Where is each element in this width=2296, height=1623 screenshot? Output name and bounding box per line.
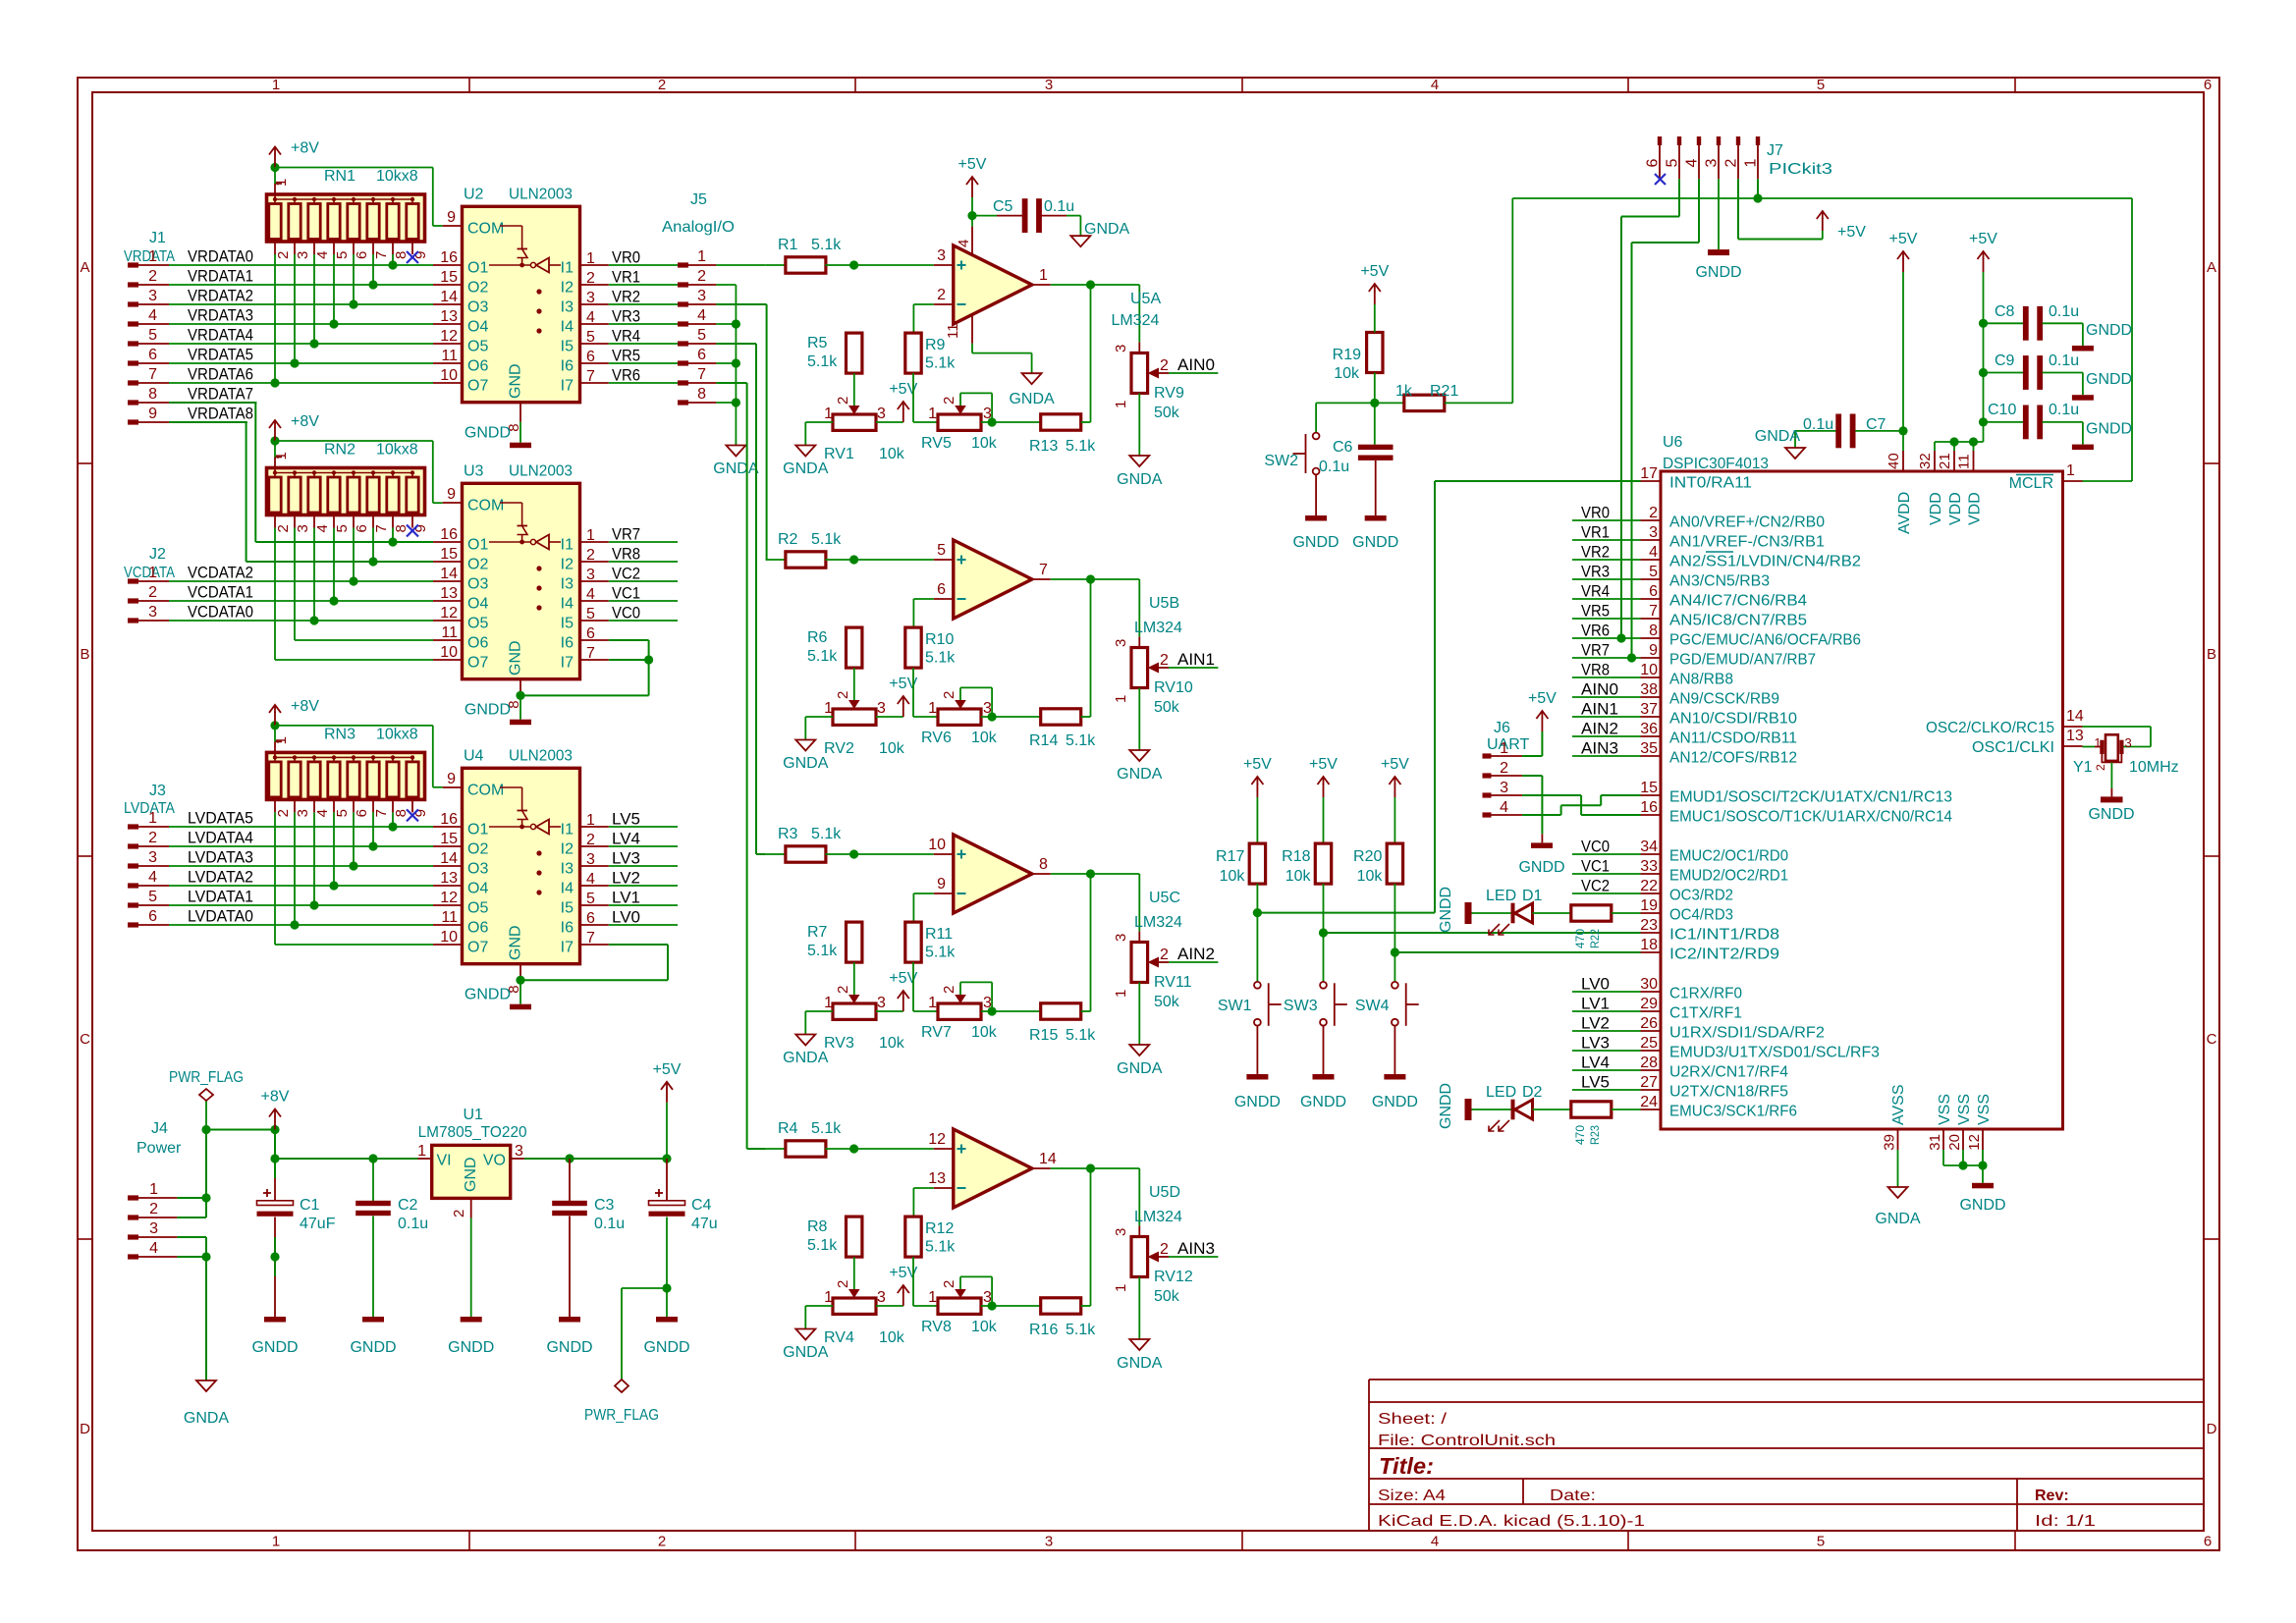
svg-text:1: 1	[148, 810, 157, 827]
svg-text:50k: 50k	[1154, 405, 1180, 421]
svg-text:VR5: VR5	[1581, 602, 1610, 621]
svg-text:2: 2	[697, 268, 706, 285]
svg-text:VRDATA3: VRDATA3	[188, 306, 253, 325]
svg-text:GNDD: GNDD	[1438, 887, 1454, 933]
svg-text:GNDA: GNDA	[1875, 1211, 1921, 1227]
svg-text:Id: 1/1: Id: 1/1	[2035, 1513, 2096, 1530]
svg-text:I5: I5	[561, 616, 574, 632]
svg-text:1: 1	[586, 812, 595, 829]
svg-text:1: 1	[2094, 735, 2101, 750]
svg-text:28: 28	[1640, 1055, 1658, 1071]
svg-text:AIN3: AIN3	[1581, 739, 1618, 758]
svg-text:2: 2	[149, 1201, 158, 1217]
svg-text:C1RX/RF0: C1RX/RF0	[1669, 986, 1742, 1002]
svg-text:12: 12	[928, 1131, 946, 1148]
svg-text:3: 3	[1113, 639, 1129, 647]
svg-text:35: 35	[1640, 740, 1658, 757]
svg-text:10: 10	[440, 644, 458, 661]
svg-text:EMUC1/SOSCO/T1CK/U1ARX/CN0/RC1: EMUC1/SOSCO/T1CK/U1ARX/CN0/RC14	[1669, 809, 1952, 826]
svg-text:1: 1	[149, 1181, 158, 1198]
svg-text:0.1u: 0.1u	[1319, 459, 1349, 475]
svg-text:3: 3	[1500, 780, 1508, 796]
svg-text:C9: C9	[1995, 352, 2015, 369]
svg-text:LV5: LV5	[1581, 1073, 1610, 1092]
svg-text:3: 3	[586, 851, 595, 868]
svg-text:I7: I7	[561, 940, 574, 956]
svg-text:5.1k: 5.1k	[811, 1120, 842, 1137]
svg-text:R9: R9	[925, 337, 946, 353]
svg-text:R1: R1	[778, 237, 798, 253]
svg-text:1: 1	[824, 406, 833, 422]
svg-text:14: 14	[440, 289, 458, 305]
svg-text:GNDA: GNDA	[1117, 1060, 1163, 1077]
svg-text:5: 5	[148, 889, 157, 905]
svg-text:10k: 10k	[1357, 868, 1384, 885]
svg-text:EMUD2/OC2/RD1: EMUD2/OC2/RD1	[1669, 868, 1788, 885]
svg-text:3: 3	[983, 406, 992, 422]
svg-text:7: 7	[373, 524, 390, 532]
svg-text:11: 11	[441, 348, 458, 364]
svg-text:IC1/INT1/RD8: IC1/INT1/RD8	[1669, 927, 1779, 944]
svg-text:38: 38	[1640, 681, 1658, 698]
svg-text:GNDA: GNDA	[783, 755, 829, 772]
svg-text:8: 8	[1649, 622, 1658, 639]
svg-text:GNDA: GNDA	[1755, 428, 1801, 445]
svg-text:3: 3	[295, 809, 311, 817]
svg-text:10k: 10k	[1334, 365, 1360, 382]
svg-text:5: 5	[334, 251, 351, 259]
svg-text:O1: O1	[467, 537, 488, 554]
svg-text:AVSS: AVSS	[1890, 1085, 1907, 1126]
svg-text:3: 3	[697, 288, 706, 304]
svg-text:R14: R14	[1029, 732, 1058, 749]
svg-text:3: 3	[295, 251, 311, 259]
svg-text:1: 1	[272, 77, 280, 93]
svg-text:O5: O5	[467, 616, 488, 632]
svg-text:AN5/IC8/CN7/RB5: AN5/IC8/CN7/RB5	[1669, 613, 1807, 629]
svg-text:U5C: U5C	[1149, 890, 1180, 906]
svg-text:10MHz: 10MHz	[2129, 759, 2179, 776]
svg-text:1: 1	[928, 995, 937, 1011]
svg-text:U3: U3	[464, 462, 484, 479]
svg-text:VR6: VR6	[612, 366, 640, 385]
svg-text:1: 1	[1113, 401, 1129, 408]
svg-text:5.1k: 5.1k	[807, 353, 838, 370]
svg-text:18: 18	[1640, 937, 1658, 953]
svg-text:I3: I3	[561, 861, 574, 878]
svg-text:C3: C3	[594, 1197, 615, 1214]
svg-text:5.1k: 5.1k	[1066, 438, 1096, 455]
svg-text:VCDATA2: VCDATA2	[188, 564, 253, 582]
svg-text:I4: I4	[561, 881, 574, 897]
svg-text:31: 31	[1927, 1134, 1943, 1151]
svg-text:1: 1	[417, 1143, 426, 1160]
svg-text:I5: I5	[561, 339, 574, 355]
svg-text:13: 13	[2066, 728, 2084, 744]
svg-text:4: 4	[1500, 799, 1508, 816]
svg-text:2: 2	[1160, 1241, 1169, 1258]
svg-text:Date:: Date:	[1550, 1488, 1596, 1504]
svg-text:VRDATA2: VRDATA2	[188, 287, 253, 305]
svg-text:15: 15	[440, 831, 458, 847]
svg-text:I3: I3	[561, 299, 574, 316]
svg-text:2: 2	[941, 691, 957, 699]
svg-text:GNDA: GNDA	[1117, 471, 1163, 488]
svg-text:GNDD: GNDD	[2086, 322, 2132, 339]
svg-text:AnalogI/O: AnalogI/O	[662, 219, 735, 236]
svg-text:0.1u: 0.1u	[2049, 402, 2079, 418]
svg-text:VC1: VC1	[612, 584, 640, 603]
svg-text:RV10: RV10	[1154, 679, 1193, 696]
svg-text:LVDATA5: LVDATA5	[188, 809, 253, 828]
svg-text:GNDA: GNDA	[1117, 766, 1163, 783]
svg-text:50k: 50k	[1154, 1288, 1180, 1305]
svg-text:C1TX/RF1: C1TX/RF1	[1669, 1005, 1742, 1022]
svg-text:O2: O2	[467, 557, 488, 573]
svg-text:O1: O1	[467, 260, 488, 277]
svg-text:VR8: VR8	[612, 545, 640, 564]
svg-text:VRDATA4: VRDATA4	[188, 326, 253, 345]
svg-text:C1: C1	[300, 1197, 320, 1214]
svg-text:I7: I7	[561, 378, 574, 395]
svg-text:O5: O5	[467, 339, 488, 355]
svg-text:9: 9	[447, 209, 456, 226]
svg-text:15: 15	[1640, 780, 1658, 796]
svg-text:C2: C2	[398, 1197, 418, 1214]
svg-text:2: 2	[586, 547, 595, 564]
svg-text:LM324: LM324	[1134, 620, 1182, 636]
svg-text:PWR_FLAG: PWR_FLAG	[584, 1407, 659, 1424]
svg-text:C10: C10	[1988, 402, 2016, 418]
svg-text:LV3: LV3	[612, 849, 640, 868]
svg-text:COM: COM	[467, 221, 504, 238]
svg-text:RV2: RV2	[824, 740, 854, 757]
svg-text:10k: 10k	[971, 1024, 998, 1041]
svg-text:AN1/VREF-/CN3/RB1: AN1/VREF-/CN3/RB1	[1669, 534, 1825, 551]
svg-text:+8V: +8V	[261, 1089, 290, 1106]
svg-text:5: 5	[1817, 77, 1825, 93]
svg-text:3: 3	[983, 1289, 992, 1306]
svg-text:O6: O6	[467, 635, 488, 652]
svg-text:J7: J7	[1767, 142, 1783, 159]
svg-text:O7: O7	[467, 378, 488, 395]
svg-text:GNDA: GNDA	[783, 460, 829, 477]
svg-text:AIN3: AIN3	[1177, 1239, 1215, 1258]
svg-text:5: 5	[334, 524, 351, 532]
svg-text:3: 3	[148, 288, 157, 304]
svg-text:O7: O7	[467, 940, 488, 956]
svg-text:R6: R6	[807, 629, 828, 646]
svg-text:5.1k: 5.1k	[807, 943, 838, 959]
svg-text:LV2: LV2	[1581, 1014, 1610, 1033]
svg-text:2: 2	[586, 832, 595, 848]
svg-text:I1: I1	[561, 260, 574, 277]
svg-text:5.1k: 5.1k	[811, 826, 842, 842]
svg-text:R19: R19	[1333, 347, 1361, 363]
svg-text:J4: J4	[151, 1120, 168, 1137]
svg-text:2: 2	[1723, 159, 1740, 168]
svg-text:Y1: Y1	[2073, 759, 2093, 776]
svg-text:VDD: VDD	[1967, 492, 1984, 525]
svg-text:10k: 10k	[971, 435, 998, 452]
svg-text:6: 6	[1645, 159, 1662, 168]
svg-text:3: 3	[983, 700, 992, 717]
svg-text:+5V: +5V	[1837, 224, 1866, 241]
svg-text:J5: J5	[690, 191, 707, 208]
svg-text:3: 3	[2125, 735, 2132, 750]
svg-text:4: 4	[586, 586, 595, 603]
svg-text:GNDD: GNDD	[1234, 1094, 1281, 1110]
svg-text:5.1k: 5.1k	[1066, 1027, 1096, 1044]
svg-text:6: 6	[2204, 77, 2212, 93]
svg-text:VI: VI	[437, 1153, 452, 1169]
svg-text:16: 16	[440, 811, 458, 828]
svg-text:1: 1	[928, 406, 937, 422]
svg-text:VR7: VR7	[1581, 641, 1610, 660]
svg-text:8: 8	[697, 386, 706, 403]
svg-text:RV9: RV9	[1154, 385, 1184, 402]
svg-text:16: 16	[1640, 799, 1658, 816]
svg-text:VO: VO	[483, 1153, 506, 1169]
svg-text:C5: C5	[993, 198, 1013, 215]
svg-text:1k: 1k	[1395, 383, 1413, 400]
svg-text:O6: O6	[467, 920, 488, 937]
svg-text:O1: O1	[467, 822, 488, 839]
svg-text:10k: 10k	[879, 740, 905, 757]
svg-text:0.1u: 0.1u	[398, 1216, 428, 1232]
svg-text:VC0: VC0	[612, 604, 640, 622]
svg-text:MCLR: MCLR	[2009, 475, 2053, 492]
svg-text:7: 7	[373, 251, 390, 259]
svg-text:AIN1: AIN1	[1177, 650, 1215, 669]
svg-text:LV0: LV0	[1581, 975, 1610, 994]
svg-text:I1: I1	[561, 822, 574, 839]
svg-text:ULN2003: ULN2003	[509, 462, 573, 479]
svg-text:1: 1	[928, 1289, 937, 1306]
svg-text:R8: R8	[807, 1218, 828, 1235]
svg-text:12: 12	[440, 890, 458, 906]
svg-text:A: A	[2207, 259, 2216, 276]
svg-text:2: 2	[835, 1280, 851, 1288]
svg-text:6: 6	[937, 581, 946, 598]
svg-text:10: 10	[440, 367, 458, 384]
svg-text:32: 32	[1917, 453, 1934, 469]
svg-text:LVDATA4: LVDATA4	[188, 829, 253, 847]
svg-text:9: 9	[447, 486, 456, 503]
svg-text:30: 30	[1640, 976, 1658, 993]
svg-text:12: 12	[1966, 1134, 1983, 1151]
svg-text:LM324: LM324	[1112, 312, 1160, 329]
svg-text:5: 5	[1665, 159, 1681, 168]
svg-text:VRDATA5: VRDATA5	[188, 346, 253, 364]
svg-text:GNDA: GNDA	[1009, 391, 1055, 407]
svg-text:2: 2	[586, 270, 595, 287]
svg-text:OSC2/CLKO/RC15: OSC2/CLKO/RC15	[1926, 720, 2054, 736]
svg-text:LV1: LV1	[1581, 995, 1610, 1013]
svg-text:AVDD: AVDD	[1896, 492, 1913, 534]
svg-text:3: 3	[1045, 1534, 1053, 1550]
svg-text:10k: 10k	[1220, 868, 1246, 885]
svg-text:+5V: +5V	[958, 156, 987, 173]
svg-text:4: 4	[586, 871, 595, 888]
svg-text:VR5: VR5	[612, 347, 640, 365]
svg-text:File: ControlUnit.sch: File: ControlUnit.sch	[1378, 1433, 1556, 1449]
svg-text:3: 3	[149, 1220, 158, 1237]
svg-text:AN2/SS1/LVDIN/CN4/RB2: AN2/SS1/LVDIN/CN4/RB2	[1669, 554, 1861, 570]
svg-text:U2: U2	[464, 186, 484, 202]
svg-text:O4: O4	[467, 319, 488, 336]
svg-text:GNDD: GNDD	[448, 1339, 494, 1356]
svg-text:2: 2	[148, 584, 157, 601]
svg-text:5: 5	[937, 542, 946, 559]
svg-text:LED: LED	[1486, 1084, 1516, 1101]
svg-text:U5B: U5B	[1149, 595, 1179, 612]
svg-text:J1: J1	[149, 230, 166, 246]
svg-text:6: 6	[697, 347, 706, 363]
svg-text:1: 1	[1743, 159, 1760, 168]
svg-text:5.1k: 5.1k	[807, 648, 838, 665]
svg-text:LVDATA2: LVDATA2	[188, 868, 253, 887]
svg-text:34: 34	[1640, 839, 1658, 855]
svg-text:3: 3	[1045, 77, 1053, 93]
svg-text:LM7805_TO220: LM7805_TO220	[418, 1124, 527, 1141]
svg-text:AIN0: AIN0	[1177, 355, 1215, 374]
svg-text:VR6: VR6	[1581, 622, 1610, 640]
svg-text:O5: O5	[467, 900, 488, 917]
svg-text:7: 7	[1649, 603, 1658, 620]
svg-text:15: 15	[440, 269, 458, 286]
svg-text:RV12: RV12	[1154, 1269, 1193, 1285]
svg-text:I7: I7	[561, 655, 574, 672]
svg-text:EMUD3/U1TX/SD01/SCL/RF3: EMUD3/U1TX/SD01/SCL/RF3	[1669, 1045, 1880, 1061]
svg-text:VR3: VR3	[612, 307, 640, 326]
svg-text:R16: R16	[1029, 1322, 1058, 1338]
svg-text:9: 9	[148, 406, 157, 422]
svg-text:2: 2	[275, 251, 292, 259]
svg-text:3: 3	[148, 604, 157, 621]
svg-text:ULN2003: ULN2003	[509, 747, 573, 764]
svg-text:GNDD: GNDD	[350, 1339, 396, 1356]
svg-text:GNDD: GNDD	[2086, 421, 2132, 438]
svg-text:5.1k: 5.1k	[807, 1237, 838, 1254]
svg-text:AN11/CSDO/RB11: AN11/CSDO/RB11	[1669, 730, 1797, 747]
svg-text:I5: I5	[561, 900, 574, 917]
svg-text:R15: R15	[1029, 1027, 1058, 1044]
svg-text:AN4/IC7/CN6/RB4: AN4/IC7/CN6/RB4	[1669, 593, 1807, 610]
svg-text:3: 3	[937, 247, 946, 264]
svg-text:LV3: LV3	[1581, 1034, 1610, 1053]
svg-text:14: 14	[440, 566, 458, 582]
svg-text:GNDA: GNDA	[783, 1344, 829, 1361]
svg-text:40: 40	[1886, 453, 1902, 469]
svg-text:470: 470	[1573, 929, 1587, 948]
svg-text:R10: R10	[925, 631, 954, 648]
svg-text:7: 7	[148, 366, 157, 383]
svg-text:LV0: LV0	[612, 908, 640, 927]
svg-text:I6: I6	[561, 920, 574, 937]
svg-text:O2: O2	[467, 280, 488, 297]
svg-text:R17: R17	[1216, 848, 1244, 865]
svg-text:DSPIC30F4013: DSPIC30F4013	[1663, 456, 1769, 472]
svg-text:VSS: VSS	[1937, 1094, 1953, 1125]
svg-text:O7: O7	[467, 655, 488, 672]
svg-text:AIN0: AIN0	[1581, 680, 1618, 699]
svg-text:27: 27	[1640, 1074, 1658, 1091]
svg-text:6: 6	[586, 349, 595, 365]
svg-text:3: 3	[877, 700, 886, 717]
svg-text:SW1: SW1	[1218, 998, 1252, 1014]
svg-text:U1RX/SDI1/SDA/RF2: U1RX/SDI1/SDA/RF2	[1669, 1025, 1825, 1042]
svg-text:6: 6	[354, 524, 370, 532]
svg-text:8: 8	[1039, 856, 1048, 873]
svg-text:VR8: VR8	[1581, 661, 1610, 679]
svg-text:J2: J2	[149, 546, 166, 563]
svg-text:C6: C6	[1333, 439, 1353, 456]
svg-text:U5A: U5A	[1130, 291, 1161, 307]
svg-text:I3: I3	[561, 576, 574, 593]
svg-text:21: 21	[1937, 453, 1953, 469]
svg-text:INT0/RA11: INT0/RA11	[1669, 475, 1752, 492]
svg-text:7: 7	[373, 809, 390, 817]
svg-text:GNDD: GNDD	[643, 1339, 689, 1356]
svg-text:AIN1: AIN1	[1581, 700, 1618, 719]
svg-text:VR3: VR3	[1581, 563, 1610, 581]
svg-text:D1: D1	[1522, 888, 1543, 904]
svg-text:GNDA: GNDA	[713, 460, 759, 477]
svg-text:GNDD: GNDD	[1959, 1197, 2005, 1214]
svg-text:VR7: VR7	[612, 525, 640, 544]
svg-text:O3: O3	[467, 299, 488, 316]
svg-text:VC1: VC1	[1581, 857, 1610, 876]
svg-text:5: 5	[148, 327, 157, 344]
svg-text:KiCad E.D.A. kicad (5.1.10)-1: KiCad E.D.A. kicad (5.1.10)-1	[1378, 1513, 1645, 1530]
svg-text:9: 9	[937, 876, 946, 893]
svg-text:VC0: VC0	[1581, 838, 1610, 856]
svg-text:R13: R13	[1029, 438, 1058, 455]
svg-text:A: A	[80, 259, 89, 276]
svg-text:7: 7	[586, 368, 595, 385]
svg-text:3: 3	[515, 1143, 523, 1160]
svg-text:2: 2	[658, 77, 666, 93]
svg-text:6: 6	[586, 625, 595, 642]
svg-text:26: 26	[1640, 1015, 1658, 1032]
svg-text:U6: U6	[1663, 434, 1683, 451]
svg-text:VCDATA1: VCDATA1	[188, 583, 253, 602]
svg-text:3: 3	[586, 567, 595, 583]
svg-text:PICkit3: PICkit3	[1769, 161, 1832, 178]
svg-text:GNDD: GNDD	[1300, 1094, 1346, 1110]
svg-text:0.1u: 0.1u	[2049, 303, 2079, 320]
svg-text:10k: 10k	[879, 446, 905, 462]
svg-text:U2TX/CN18/RF5: U2TX/CN18/RF5	[1669, 1084, 1788, 1101]
svg-text:Title:: Title:	[1379, 1453, 1434, 1479]
svg-text:ULN2003: ULN2003	[509, 186, 573, 202]
svg-text:2: 2	[2094, 764, 2107, 771]
svg-text:16: 16	[440, 526, 458, 543]
svg-text:IC2/INT2/RD9: IC2/INT2/RD9	[1669, 947, 1779, 963]
svg-text:12: 12	[440, 605, 458, 622]
svg-text:24: 24	[1640, 1094, 1658, 1110]
svg-text:GNDA: GNDA	[1084, 221, 1130, 238]
svg-text:10k: 10k	[879, 1329, 905, 1346]
svg-text:5: 5	[697, 327, 706, 344]
svg-text:0.1u: 0.1u	[2049, 352, 2079, 369]
svg-text:RN1: RN1	[324, 168, 355, 185]
svg-text:+8V: +8V	[291, 698, 319, 715]
svg-text:+5V: +5V	[1889, 231, 1918, 247]
svg-text:R7: R7	[807, 924, 828, 941]
svg-text:5: 5	[1649, 564, 1658, 580]
